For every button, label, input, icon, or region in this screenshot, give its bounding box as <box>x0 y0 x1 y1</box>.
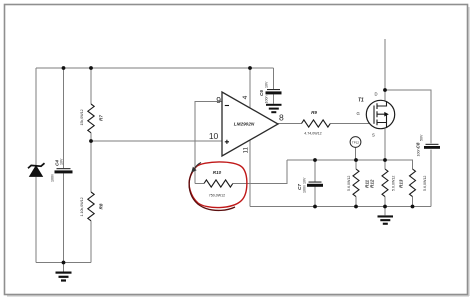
svg-text:10V: 10V <box>265 81 269 88</box>
wire C6 riser <box>273 68 275 89</box>
wire op-amp output <box>278 123 302 125</box>
wire top rail <box>36 67 274 69</box>
junction source rail / C7 <box>313 158 317 162</box>
wire left column lower <box>35 177 37 263</box>
wire TP12 stem <box>355 147 357 160</box>
svg-text:R10: R10 <box>213 170 222 175</box>
svg-text:9: 9 <box>216 95 221 105</box>
capacitor C4 <box>55 168 73 173</box>
svg-text:5.6,0W12: 5.6,0W12 <box>392 176 396 191</box>
svg-text:11: 11 <box>243 147 250 154</box>
svg-text:4: 4 <box>242 95 249 99</box>
capacitor C8 <box>424 144 440 149</box>
wire C4 branch top <box>63 68 65 168</box>
svg-text:R9: R9 <box>311 110 317 115</box>
test point TP12 <box>350 137 361 148</box>
wire source <box>384 129 386 160</box>
svg-text:C8: C8 <box>416 142 421 148</box>
resistor R13 <box>410 169 416 197</box>
svg-text:10: 10 <box>209 131 219 141</box>
wire R10 left lead <box>195 183 204 185</box>
wire to op-amp pin 10 <box>91 140 222 142</box>
junction bottom-left rail / ground <box>62 261 66 265</box>
junction ground rail / R12 ground <box>383 205 387 209</box>
op-amp U1 LM2902N <box>222 92 278 156</box>
junction ground rail / R11 <box>354 205 358 209</box>
svg-text:100n: 100n <box>265 96 269 104</box>
junction top rail / C4 <box>62 66 66 70</box>
junction top rail / pin 4 <box>248 66 252 70</box>
svg-text:8: 8 <box>279 112 284 122</box>
svg-text:C7: C7 <box>297 184 302 190</box>
svg-text:C6: C6 <box>259 90 264 96</box>
wire left column upper <box>35 68 37 166</box>
resistor R7 <box>88 104 94 133</box>
wire R11 leads <box>355 160 357 207</box>
wire drain <box>384 39 386 101</box>
resistor R10 <box>204 180 233 187</box>
ground (C6) <box>266 104 282 113</box>
wire op-amp pin 4 <box>249 68 251 108</box>
wire C8 bottom lead <box>430 150 432 207</box>
ground (left) <box>56 263 72 282</box>
wire C4 branch bottom <box>63 173 65 262</box>
ground (center) <box>378 207 394 225</box>
svg-text:R7: R7 <box>99 115 104 121</box>
svg-text:D: D <box>375 92 378 97</box>
junction source rail / source R12 <box>383 158 387 162</box>
svg-text:100n: 100n <box>417 149 421 157</box>
annotation red circle <box>189 162 247 208</box>
wire op-amp pin 11 <box>249 140 251 207</box>
junction source rail / TP12 R11 <box>354 158 358 162</box>
wire C6 to ground <box>273 94 275 104</box>
capacitor C6 <box>266 89 282 94</box>
wire bottom-left rail <box>36 262 91 264</box>
resistor R12 <box>382 169 388 197</box>
svg-text:750,0W12: 750,0W12 <box>209 194 225 198</box>
resistor R9 <box>302 120 331 127</box>
wire C7 leads <box>314 160 316 207</box>
svg-text:1.10k,0W12: 1.10k,0W12 <box>80 197 84 216</box>
svg-text:R8: R8 <box>99 203 104 209</box>
capacitor C7 <box>307 182 323 187</box>
wire R12 leads <box>384 160 386 207</box>
svg-text:T1: T1 <box>358 98 364 104</box>
junction drain / C8 wire <box>383 88 387 92</box>
wire R10 right lead <box>233 160 287 184</box>
wire source rail <box>287 159 413 161</box>
svg-text:S: S <box>372 133 375 138</box>
wire gate <box>330 123 374 125</box>
svg-text:TP12: TP12 <box>352 140 360 144</box>
svg-text:R13: R13 <box>399 179 404 188</box>
junction ground rail / R13 <box>411 205 415 209</box>
svg-text:4.74,0W12: 4.74,0W12 <box>304 132 321 136</box>
svg-text:100n 10V: 100n 10V <box>303 177 307 193</box>
svg-text:100n: 100n <box>51 174 55 182</box>
wire drain to C8 <box>385 90 431 143</box>
wire to op-amp pin 9 <box>195 102 222 184</box>
annotation retrace stroke <box>189 168 235 210</box>
wire R8 bottom lead <box>90 221 92 263</box>
transistor T1 (N-MOSFET) <box>366 100 394 128</box>
junction ground rail / C7 <box>313 205 317 209</box>
svg-text:10V: 10V <box>60 158 64 165</box>
wire R7 to R8 <box>90 133 92 192</box>
svg-text:R12: R12 <box>370 179 375 188</box>
resistor R11 <box>353 169 359 197</box>
wire R13 leads <box>412 160 414 207</box>
annotation arrow <box>191 163 201 173</box>
junction top rail / R7 <box>89 66 93 70</box>
svg-text:5.6,0W12: 5.6,0W12 <box>347 176 351 191</box>
junction R7-R8 / pin 10 <box>89 139 93 143</box>
wire R7 top lead <box>90 68 92 104</box>
svg-text:G: G <box>357 111 360 116</box>
svg-text:15k,0W12: 15k,0W12 <box>80 109 84 125</box>
zener diode <box>28 163 45 176</box>
resistor R8 <box>88 192 94 221</box>
svg-text:LM2902N: LM2902N <box>234 122 255 127</box>
svg-text:5.6,0W12: 5.6,0W12 <box>423 176 427 191</box>
svg-text:50V: 50V <box>420 134 424 141</box>
wire ground rail <box>250 206 431 208</box>
